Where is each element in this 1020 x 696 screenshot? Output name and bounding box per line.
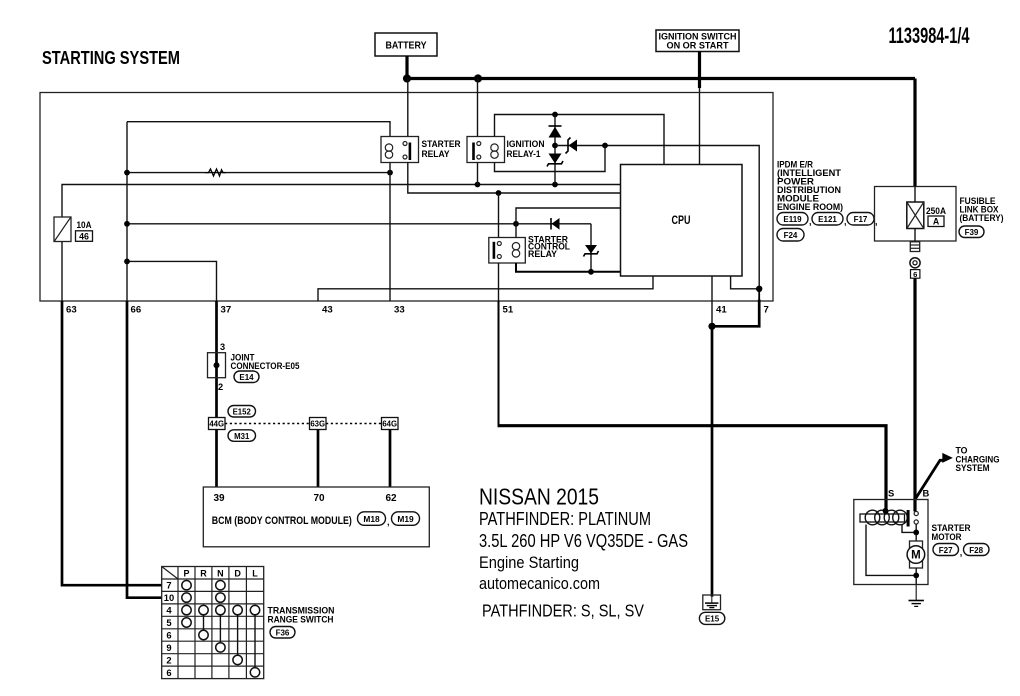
svg-text:ON OR START: ON OR START — [667, 41, 729, 51]
wire 64G to BCM pin 62 — [389, 430, 392, 488]
svg-text:,: , — [844, 217, 847, 227]
node ignition relay feed junction — [474, 74, 482, 82]
IPDM E/R outer box — [40, 93, 773, 302]
node starter control relay branch — [496, 190, 502, 196]
wire CPU pin to node7 — [731, 276, 760, 289]
svg-text:6: 6 — [913, 270, 917, 279]
BCM box — [203, 487, 429, 547]
wire coil left return — [866, 525, 916, 576]
node diode mid junction — [552, 143, 558, 149]
node net-7 junction — [756, 286, 762, 292]
svg-text:F28: F28 — [969, 546, 983, 555]
connector oval E15 — [699, 612, 724, 624]
svg-text:1133984-1/4: 1133984-1/4 — [889, 23, 970, 48]
svg-text:CONNECTOR-E05: CONNECTOR-E05 — [231, 361, 300, 371]
wire contact to motor — [915, 524, 917, 541]
svg-text:3: 3 — [220, 342, 225, 352]
svg-text:66: 66 — [131, 305, 142, 316]
svg-text:E15: E15 — [705, 615, 720, 624]
svg-text:46: 46 — [79, 231, 89, 241]
wire net-41 thick to ground — [711, 326, 714, 597]
svg-text:,: , — [387, 517, 390, 527]
wire net-66 lower — [127, 301, 162, 598]
connector stripe symbol below fusible box — [910, 242, 919, 252]
transmission range switch table — [162, 567, 264, 679]
wire ignition switch drop (thick then thin to CPU) — [698, 52, 701, 89]
svg-text:44G: 44G — [209, 420, 224, 429]
starter plunger bar — [907, 510, 910, 527]
wire node-66 vertical x=127 — [126, 122, 128, 301]
node resistor left junction — [124, 170, 130, 176]
node D5 bottom junction — [588, 269, 594, 275]
svg-text:7: 7 — [166, 580, 171, 591]
starter motor label — [932, 523, 971, 542]
svg-text:10A: 10A — [77, 220, 93, 230]
wire dashed 63G to 64G — [326, 423, 382, 425]
wire motor bottom — [915, 568, 917, 585]
svg-text:(BATTERY): (BATTERY) — [960, 213, 1004, 223]
connector oval F17 — [847, 213, 878, 227]
svg-text:A: A — [933, 217, 940, 227]
svg-text:,: , — [875, 217, 878, 227]
svg-text:4: 4 — [166, 605, 172, 616]
node y=261.4 at x=127 — [124, 259, 130, 265]
svg-text:SYSTEM: SYSTEM — [956, 463, 990, 473]
wire CPU pin net-41 upper — [711, 276, 713, 326]
wire battery stub — [405, 56, 408, 79]
svg-text:6: 6 — [166, 667, 171, 678]
wire starter relay contact feed x=407.8 — [407, 79, 409, 137]
svg-text:E152: E152 — [233, 408, 252, 417]
ignition switch box IGNITION SWITCH ON OR START — [656, 30, 739, 52]
connector 44G — [209, 418, 226, 430]
svg-text:RELAY: RELAY — [422, 149, 451, 160]
svg-text:MOTOR: MOTOR — [932, 532, 962, 542]
wire SCR coil top to CPU y=208 — [516, 208, 621, 238]
svg-text:62: 62 — [386, 493, 398, 504]
ground E15 body ground — [703, 595, 721, 610]
svg-text:6: 6 — [166, 630, 171, 641]
diode D5 zener (cathode down) — [584, 224, 599, 272]
connector oval F24 — [777, 229, 804, 242]
connector oval M18 — [358, 512, 390, 527]
svg-text:,: , — [960, 548, 963, 558]
svg-text:BATTERY: BATTERY — [386, 40, 427, 52]
wire battery cable to starter B — [913, 278, 916, 511]
connector oval E121 — [812, 213, 847, 227]
svg-text:N: N — [217, 569, 224, 579]
svg-text:F39: F39 — [965, 228, 979, 237]
svg-text:B: B — [923, 488, 930, 499]
wire main feed y=184.5 (fuse to CPU) — [62, 185, 621, 218]
CPU box — [621, 165, 743, 277]
svg-text:BCM (BODY CONTROL MODULE): BCM (BODY CONTROL MODULE) — [212, 515, 352, 527]
svg-text:E119: E119 — [783, 215, 802, 224]
diode D2 zener (cathode down) — [547, 154, 563, 167]
diode D4 (cathode left) — [516, 218, 591, 230]
connector oval M19 — [392, 512, 420, 526]
joint connector E05 box — [208, 342, 300, 392]
transmission range switch label — [268, 606, 335, 625]
ground starter chassis — [909, 601, 924, 607]
svg-text:CPU: CPU — [672, 215, 691, 227]
starter solenoid coil loops — [865, 510, 907, 525]
svg-text:L: L — [252, 569, 258, 579]
connector oval E119 — [777, 213, 812, 227]
switch contact connector lines R N D L columns — [204, 610, 256, 672]
svg-text:ENGINE ROOM): ENGINE ROOM) — [777, 202, 843, 212]
svg-text:2: 2 — [166, 654, 171, 665]
svg-text:2: 2 — [218, 382, 223, 392]
wire SCR contact bottom pin — [498, 263, 500, 301]
node starter control relay coil junction — [513, 221, 519, 227]
diode D3 zener (cathode left) — [566, 138, 578, 154]
fusible link box (battery) — [875, 187, 957, 242]
ignition relay-1 — [467, 137, 545, 163]
node motor bottom — [913, 573, 919, 579]
node y=223.8 at x=127 — [124, 221, 130, 227]
connector 63G — [310, 418, 327, 430]
node resistor right junction — [387, 170, 393, 176]
svg-text:R: R — [200, 569, 207, 579]
connector oval M31 — [228, 430, 256, 442]
wire battery bus — [406, 77, 916, 80]
IPDM E/R label block — [777, 160, 843, 213]
svg-text:RELAY: RELAY — [528, 249, 557, 259]
starter contact circles — [914, 511, 918, 515]
svg-text:250A: 250A — [926, 206, 947, 216]
wire net-33 upper vertical x=390 — [389, 163, 391, 302]
starter control relay — [489, 235, 571, 264]
connector oval E152 — [228, 406, 256, 418]
svg-text:10: 10 — [164, 592, 174, 603]
switch contact circles — [182, 581, 260, 678]
svg-text:39: 39 — [214, 493, 226, 504]
svg-text:M19: M19 — [397, 514, 414, 524]
svg-text:F27: F27 — [939, 546, 953, 555]
wire ignition relay contact feed x=477.5 — [477, 79, 479, 137]
node diode string bottom — [552, 182, 558, 188]
svg-text:7: 7 — [764, 305, 769, 316]
svg-text:,: , — [809, 217, 812, 227]
battery BATTERY box — [375, 33, 437, 56]
svg-text:51: 51 — [503, 305, 514, 316]
node diode out junction — [602, 143, 608, 149]
wire coil feed y=121.7 (node 66 to starter relay coil) — [127, 122, 390, 137]
svg-text:5: 5 — [166, 617, 171, 628]
wire fusible link feed — [913, 79, 916, 188]
wire SCR coil bottom to CPU y=271.8 — [516, 263, 621, 272]
svg-text:F24: F24 — [784, 231, 798, 240]
wire SCR contact top pin — [498, 193, 500, 238]
svg-text:RELAY-1: RELAY-1 — [507, 149, 542, 160]
wire 63G to BCM pin 70 — [317, 430, 320, 488]
node battery bus junction — [403, 74, 411, 82]
svg-text:E14: E14 — [239, 373, 254, 382]
wire net-37 to joint connector — [215, 301, 218, 418]
connector 64G — [382, 418, 399, 430]
svg-text:F17: F17 — [854, 215, 868, 224]
wire control coil net y=223.8 — [127, 223, 516, 225]
diode D1 (arc suppression, cathode up) — [549, 115, 562, 185]
svg-text:PATHFINDER: PLATINUM: PATHFINDER: PLATINUM — [479, 509, 651, 529]
connector oval E14 — [234, 371, 259, 383]
connector oval F36 — [270, 627, 295, 639]
starter motor box — [854, 500, 928, 585]
fusible link box label — [960, 196, 1004, 223]
svg-text:37: 37 — [221, 305, 232, 316]
connector oval F39 — [959, 226, 984, 238]
node net-41/7 junction — [708, 323, 715, 330]
svg-text:64G: 64G — [382, 420, 397, 429]
resistor (engine ground sense) — [205, 169, 226, 176]
wire CPU pin to net-43 y=288.8 — [318, 276, 653, 301]
svg-text:M18: M18 — [363, 514, 380, 524]
starter relay — [381, 137, 461, 163]
wire ignition relay contact bottom pin — [477, 163, 479, 185]
node ignition relay contact bottom — [475, 182, 481, 188]
svg-text:9: 9 — [166, 642, 171, 653]
wire starter relay contact out to CPU y=193 — [408, 163, 621, 194]
wire ignition relay coil bottom loop — [495, 146, 606, 172]
svg-text:NISSAN 2015: NISSAN 2015 — [479, 484, 599, 510]
svg-text:33: 33 — [394, 305, 405, 316]
connector oval F27 — [933, 544, 962, 558]
wire net-63 lower — [62, 301, 162, 585]
starter solenoid core bar — [860, 514, 905, 522]
svg-text:70: 70 — [314, 493, 326, 504]
connector ring terminal 6 — [910, 258, 920, 279]
svg-text:43: 43 — [322, 305, 333, 316]
svg-text:P: P — [183, 569, 189, 579]
wire ignition relay coil top loop y=114.5 to CPU — [495, 115, 665, 165]
starter motor M symbol — [907, 541, 925, 568]
node motor top — [913, 530, 919, 536]
wire dashed 44G to 63G — [225, 423, 310, 425]
node S wire to coil — [883, 508, 889, 514]
svg-text:S: S — [888, 488, 894, 499]
svg-text:E121: E121 — [818, 215, 837, 224]
svg-text:D: D — [234, 569, 241, 579]
svg-text:F36: F36 — [276, 629, 290, 638]
svg-text:RANGE SWITCH: RANGE SWITCH — [268, 615, 334, 625]
wire net-37 takeoff y=261.4 — [127, 261, 217, 301]
fuse 10A 46 — [54, 217, 93, 242]
svg-text:63G: 63G — [310, 420, 325, 429]
arrow to charging system — [915, 446, 999, 500]
vehicle info text block — [479, 484, 688, 621]
svg-text:3.5L 260 HP V6 VQ35DE - GAS: 3.5L 260 HP V6 VQ35DE - GAS — [479, 531, 688, 551]
svg-text:M: M — [911, 550, 921, 562]
wire resistor net y=172.6 — [127, 172, 390, 174]
wire diode mid net y=145.5 to node 7 drop — [555, 146, 759, 289]
svg-text:STARTING SYSTEM: STARTING SYSTEM — [42, 48, 180, 68]
svg-text:Engine Starting: Engine Starting — [479, 553, 579, 572]
wire to starter ground — [915, 585, 917, 601]
svg-text:automecanico.com: automecanico.com — [479, 575, 600, 593]
svg-text:PATHFINDER: S, SL, SV: PATHFINDER: S, SL, SV — [482, 601, 644, 621]
svg-text:M31: M31 — [234, 432, 250, 441]
svg-text:41: 41 — [716, 305, 727, 316]
wire coil right to motor node — [902, 525, 916, 533]
wire net-7 lower — [758, 289, 760, 301]
node diode string top — [552, 112, 558, 118]
wire net-51 to starter S — [498, 301, 500, 426]
connector oval F28 — [964, 544, 990, 556]
wire net-63 upper (fuse bottom) — [61, 242, 63, 302]
svg-text:63: 63 — [66, 305, 77, 316]
wire 44G to BCM pin 39 — [215, 430, 218, 488]
